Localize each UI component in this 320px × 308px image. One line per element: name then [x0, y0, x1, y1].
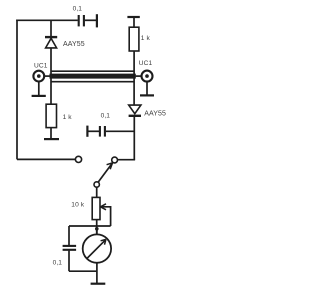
capacitor C1 0,1 (top)	[73, 6, 97, 28]
svg-text:UC1: UC1	[139, 60, 153, 67]
svg-text:UC1: UC1	[34, 62, 48, 69]
wire junction branch	[69, 225, 111, 227]
connector UC1 (left)	[32, 62, 50, 96]
svg-text:10 k: 10 k	[71, 202, 84, 209]
svg-text:0,1: 0,1	[73, 6, 83, 13]
junction dot	[95, 227, 99, 231]
diode D1 AAY55 (left)	[45, 20, 85, 105]
meter M1	[83, 229, 111, 283]
svg-text:1 k: 1 k	[63, 114, 73, 121]
svg-text:AAY55: AAY55	[63, 41, 85, 48]
potentiometer P1 10k	[71, 187, 110, 234]
wire to switch	[17, 158, 75, 160]
ground (bottom)	[91, 283, 106, 285]
svg-text:1 k: 1 k	[141, 35, 151, 42]
wire from switch to diode branch	[117, 159, 135, 161]
diode D2 AAY55 (right)	[129, 105, 166, 160]
wire top	[16, 19, 78, 21]
wire left rail	[16, 20, 18, 160]
resistor R1 1k (left)	[44, 104, 72, 139]
svg-text:0,1: 0,1	[53, 259, 63, 266]
switch S1	[75, 156, 117, 187]
connector UC1 (right)	[136, 60, 154, 95]
svg-text:0,1: 0,1	[101, 112, 111, 119]
resistor R2 1k (top right)	[127, 17, 150, 105]
capacitor C2 0,1 (middle)	[87, 112, 134, 136]
coax cable (slotted line)	[50, 71, 136, 82]
svg-text:AAY55: AAY55	[144, 110, 166, 117]
capacitor C3 0,1 (bottom)	[53, 226, 97, 271]
